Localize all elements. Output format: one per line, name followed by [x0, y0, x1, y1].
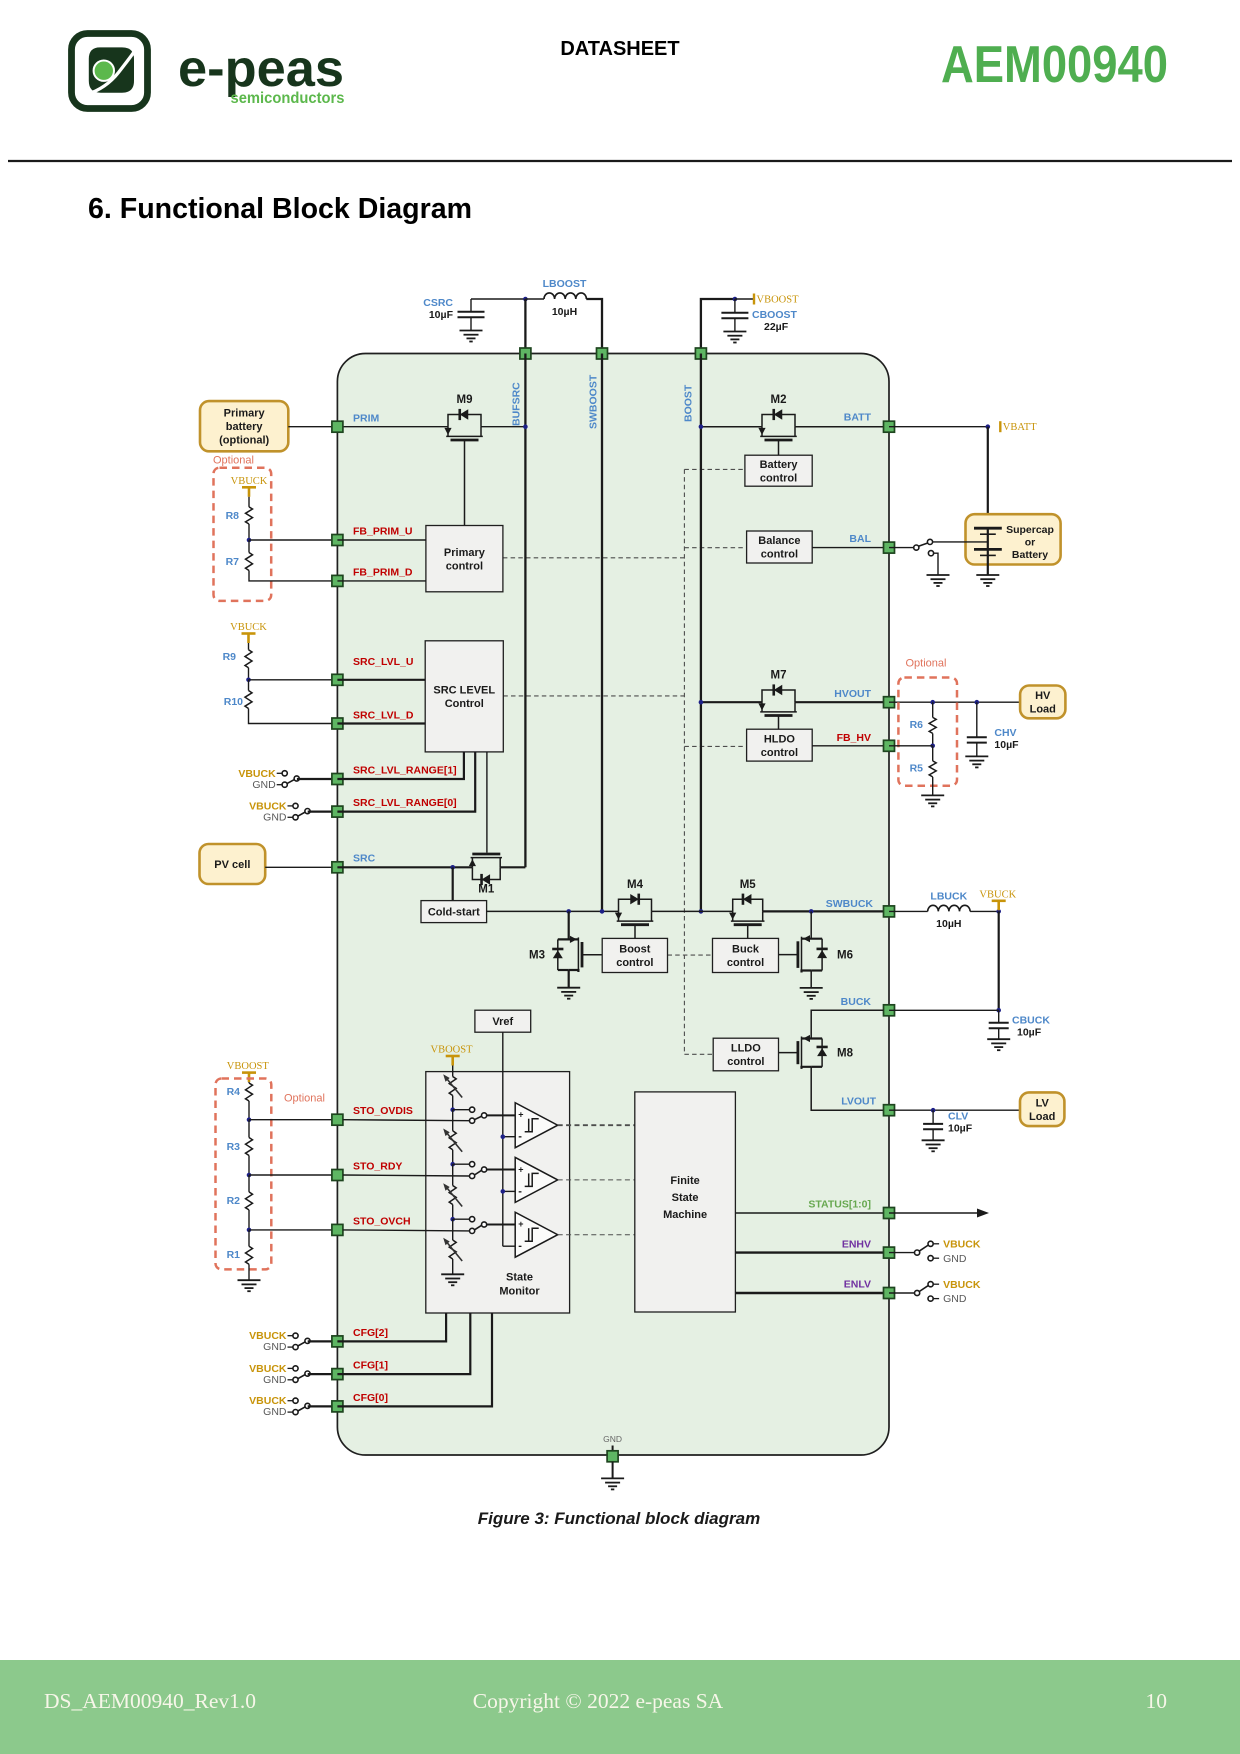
switch STO comparator 3 — [470, 1217, 475, 1222]
resistor R1 — [246, 1246, 253, 1264]
transistor M9 — [448, 415, 481, 427]
svg-text:Primary: Primary — [224, 408, 266, 420]
svg-text:Balance: Balance — [758, 535, 800, 547]
resistor R8 — [246, 507, 253, 524]
comparator 1 — [515, 1103, 558, 1148]
svg-text:Finite: Finite — [670, 1175, 699, 1187]
wire SRC_LVL_RANGE[0] riser — [337, 752, 475, 812]
svg-text:Monitor: Monitor — [499, 1286, 540, 1298]
svg-text:10µF: 10µF — [429, 309, 454, 321]
wire FSM to STATUS pin — [735, 1212, 883, 1214]
svg-text:M9: M9 — [457, 394, 473, 406]
wire HLDO to FB_HV pin — [812, 745, 889, 747]
wire tap3 to contact — [453, 1218, 470, 1220]
wire PV cell to SRC pin — [265, 866, 337, 868]
wire HVOUT to HV Load — [889, 701, 1020, 703]
dashed link Boost-Buck control — [668, 954, 713, 956]
wire switch to SRC_LVL_RANGE[1] pin — [297, 778, 338, 780]
wire node to LBOOST — [525, 298, 544, 300]
svg-text:M2: M2 — [771, 394, 787, 406]
node VBATT — [986, 424, 991, 429]
wire node to STO_RDY pin — [249, 1174, 337, 1176]
svg-text:VBUCK: VBUCK — [979, 889, 1016, 900]
transistor M3 — [558, 938, 579, 940]
svg-text:LBOOST: LBOOST — [543, 278, 587, 290]
ground CLV — [922, 1139, 945, 1141]
wire node to STO_OVCH pin — [249, 1229, 337, 1231]
svg-text:(optional): (optional) — [219, 435, 269, 447]
svg-text:DATASHEET: DATASHEET — [560, 38, 679, 60]
svg-text:GND: GND — [263, 811, 287, 823]
box LLDO control — [713, 1038, 778, 1071]
pin FB_PRIM_D — [332, 575, 343, 586]
transistor M4 — [619, 899, 652, 911]
svg-text:Optional: Optional — [906, 658, 947, 670]
svg-text:Load: Load — [1029, 1111, 1055, 1123]
svg-text:LBUCK: LBUCK — [930, 891, 967, 903]
wire LVOUT to LV Load — [889, 1109, 1020, 1111]
svg-text:State: State — [506, 1272, 533, 1284]
wire node to R5 — [932, 746, 934, 761]
wire node to M3 drain — [568, 911, 570, 939]
box Vref — [475, 1010, 531, 1032]
capacitor CSRC — [470, 299, 472, 312]
box PV cell — [200, 844, 266, 884]
box Battery control — [745, 455, 812, 486]
capacitor CHV plates — [967, 736, 987, 738]
box Finite State Machine — [635, 1092, 736, 1312]
wire BAL switch to ground — [934, 553, 938, 575]
svg-text:CHV: CHV — [994, 727, 1016, 739]
wire CBOOST to ground — [734, 318, 736, 331]
wire node to Cold-start — [452, 867, 454, 900]
wire M8 source to LVOUT pin — [811, 1067, 883, 1110]
svg-text:VBUCK: VBUCK — [231, 476, 268, 487]
pin STO_RDY — [332, 1170, 343, 1181]
wire SRC to M1 — [337, 866, 472, 868]
dashed link SRC LEVEL control — [503, 695, 684, 697]
svg-text:PV cell: PV cell — [214, 859, 250, 871]
wire CBUCK to ground — [998, 1028, 1000, 1039]
svg-text:10µH: 10µH — [552, 306, 577, 318]
svg-text:GND: GND — [252, 779, 276, 791]
wire node to M6 drain — [810, 911, 812, 938]
wire R6 to FB node — [932, 733, 934, 745]
resistor R3 — [246, 1138, 253, 1156]
svg-text:CLV: CLV — [948, 1111, 968, 1123]
svg-text:R6: R6 — [910, 719, 924, 731]
comparator 2 — [515, 1157, 558, 1202]
svg-text:CFG[1]: CFG[1] — [353, 1360, 388, 1372]
svg-text:GND: GND — [603, 1434, 622, 1444]
svg-text:Battery: Battery — [760, 459, 799, 471]
pin BAL — [884, 542, 895, 553]
svg-text:GND: GND — [943, 1253, 967, 1265]
wire tap1 to contact — [453, 1109, 470, 1111]
wire battery internal — [987, 528, 989, 555]
svg-text:VBATT: VBATT — [1003, 422, 1037, 433]
svg-text:R3: R3 — [227, 1141, 241, 1153]
svg-text:SWBUCK: SWBUCK — [826, 898, 874, 910]
supply VBOOST top — [753, 294, 755, 305]
wire STO pin row 3 — [343, 1230, 470, 1231]
node R8 R7 — [247, 538, 252, 543]
svg-text:M5: M5 — [740, 879, 757, 891]
box LV Load — [1020, 1092, 1064, 1126]
footer bar — [0, 1660, 1240, 1754]
resistor R9 — [245, 650, 252, 668]
box Buck control — [713, 938, 779, 972]
wire BAL switch to battery mid — [933, 541, 988, 543]
ground BAL — [927, 574, 950, 576]
wire ENHV to switch — [889, 1252, 915, 1254]
pin SWBUCK — [884, 906, 895, 917]
wire pole to comparator 2 plus — [487, 1169, 516, 1171]
node R6 R5 — [930, 744, 935, 749]
IC block boundary AEM00940 — [337, 354, 889, 1456]
svg-text:SRC: SRC — [353, 853, 376, 865]
svg-text:control: control — [761, 549, 798, 561]
wire VBUCK to R8 — [248, 497, 250, 507]
wire STATUS arrow — [889, 1212, 980, 1214]
box HLDO control — [747, 729, 813, 761]
svg-text:control: control — [760, 472, 797, 484]
pin STO_OVCH — [332, 1224, 343, 1235]
wire FB_HV pin to node — [889, 745, 933, 747]
pin SRC_LVL_RANGE[1] — [332, 774, 343, 785]
ground CHV — [965, 755, 988, 757]
dashed link Battery control — [684, 468, 745, 470]
ground battery — [976, 574, 999, 576]
svg-text:Machine: Machine — [663, 1209, 707, 1221]
node M7 BOOST — [699, 700, 704, 705]
transistor M1 symbol — [472, 867, 500, 879]
svg-text:R2: R2 — [227, 1195, 241, 1207]
svg-text:AEM00940: AEM00940 — [941, 36, 1168, 94]
wire Balance control to BAL pin — [812, 547, 883, 549]
supply VBATT — [999, 421, 1001, 432]
node CHV — [975, 700, 980, 705]
wire tap3 to pot4 — [452, 1219, 454, 1240]
svg-text:R7: R7 — [226, 556, 240, 568]
svg-text:ENLV: ENLV — [844, 1279, 871, 1291]
svg-text:+: + — [518, 1110, 523, 1120]
pin BOOST — [695, 348, 706, 359]
node M3 drain — [566, 909, 571, 914]
svg-text:10µH: 10µH — [936, 918, 961, 930]
wire R3 to node — [248, 1156, 250, 1176]
capacitor CHV — [976, 702, 978, 737]
svg-text:Vref: Vref — [492, 1016, 513, 1028]
pin HVOUT — [884, 697, 895, 708]
pin CFG[0] — [332, 1401, 343, 1412]
svg-text:STO_RDY: STO_RDY — [353, 1161, 402, 1173]
node CLV — [931, 1108, 936, 1113]
wire BATT pin to VBATT — [889, 426, 988, 428]
wire BOOST pin to CBOOST — [701, 299, 735, 354]
box Balance control — [747, 531, 813, 563]
svg-text:ENHV: ENHV — [842, 1238, 871, 1250]
node tap1 — [450, 1107, 455, 1112]
svg-text:STO_OVCH: STO_OVCH — [353, 1215, 411, 1227]
wire Vref to comparator2 minus — [503, 1190, 515, 1192]
pin BUFSRC — [520, 348, 531, 359]
wire BOOST rail to M2 — [701, 426, 762, 428]
svg-text:Primary: Primary — [444, 547, 486, 559]
svg-text:22µF: 22µF — [764, 321, 789, 333]
svg-text:FB_HV: FB_HV — [837, 732, 871, 744]
pin SRC — [332, 862, 343, 873]
svg-text:VBUCK: VBUCK — [943, 1238, 981, 1250]
box Cold-start — [421, 901, 487, 923]
wire R9 to node — [248, 668, 250, 680]
capacitor CBOOST — [734, 299, 736, 313]
svg-text:HLDO: HLDO — [764, 733, 796, 745]
potentiometer STO third — [449, 1186, 456, 1205]
svg-text:-: - — [518, 1240, 522, 1252]
wire STO pin row 1 — [343, 1120, 470, 1121]
wire Primary battery to PRIM pin — [288, 426, 337, 428]
svg-text:M4: M4 — [627, 879, 644, 891]
wire CLV to ground — [932, 1129, 934, 1140]
wire switch to SRC_LVL_RANGE[0] pin — [308, 810, 338, 812]
pin BUCK — [884, 1005, 895, 1016]
wire R5 to ground — [932, 777, 934, 796]
svg-text:M8: M8 — [837, 1048, 854, 1060]
svg-text:M3: M3 — [529, 950, 545, 962]
dashed link Primary control — [503, 557, 685, 559]
wire node to R1 — [248, 1230, 250, 1246]
wire switch to CFG[0] pin — [308, 1405, 338, 1407]
wire BUFSRC rail — [524, 354, 526, 868]
svg-text:Buck: Buck — [732, 944, 760, 956]
node tap2 — [450, 1162, 455, 1167]
wire STO pin row 2 — [343, 1175, 470, 1176]
wire R10 to SRC_LVL_D pin — [249, 709, 338, 724]
svg-text:LVOUT: LVOUT — [841, 1095, 876, 1107]
wire FSM to ENHV pin — [735, 1251, 883, 1253]
ground GND pin — [601, 1477, 624, 1479]
node VBUCK — [996, 909, 1001, 914]
potentiometer STO top — [449, 1077, 456, 1096]
resistor R6 — [929, 717, 936, 733]
ground CBOOST — [723, 331, 746, 333]
node R9 R10 — [246, 678, 251, 683]
resistor R4 — [246, 1083, 253, 1101]
svg-text:or: or — [1025, 537, 1036, 549]
svg-text:battery: battery — [226, 421, 264, 433]
svg-text:semiconductors: semiconductors — [231, 90, 345, 107]
wire node to SRC_LVL_U pin — [249, 679, 338, 681]
wire CFG[2] riser — [337, 1313, 446, 1341]
pin PRIM — [332, 421, 343, 432]
node SWBOOST row — [600, 909, 605, 914]
svg-text:R1: R1 — [227, 1249, 241, 1261]
svg-text:-: - — [518, 1185, 522, 1197]
switch STO comparator 2 — [470, 1162, 475, 1167]
svg-text:BOOST: BOOST — [683, 384, 695, 422]
svg-text:Optional: Optional — [284, 1092, 325, 1104]
wire node to FB_PRIM_U pin — [249, 539, 337, 541]
wire FB_PRIM_U to Primary control — [337, 539, 426, 541]
pin SRC_LVL_RANGE[0] — [332, 806, 343, 817]
wire switch to CFG[2] pin — [308, 1340, 338, 1342]
resistor R7 — [246, 553, 253, 571]
pin STATUS[1:0] — [884, 1208, 895, 1219]
wire tap2 to pot3 — [452, 1164, 454, 1185]
svg-text:Load: Load — [1030, 704, 1056, 716]
wire R7 to FB_PRIM_D pin — [249, 571, 337, 581]
wire Vref to comparator1 minus — [503, 1136, 515, 1138]
box Primary battery (optional) — [200, 401, 288, 451]
node SRC cold-start — [450, 865, 455, 870]
wire SRC LEVEL to M1 gate — [486, 752, 488, 853]
svg-text:HV: HV — [1035, 690, 1051, 702]
wire CSRC to ground — [470, 317, 472, 330]
optional box R1-R4 — [216, 1079, 272, 1270]
pin SRC_LVL_D — [332, 718, 343, 729]
pin BATT — [884, 421, 895, 432]
svg-text:control: control — [727, 1056, 764, 1068]
wire battery to ground — [987, 555, 989, 575]
svg-text:Battery: Battery — [1012, 549, 1048, 561]
header rule — [8, 160, 1232, 162]
svg-text:GND: GND — [263, 1374, 287, 1386]
svg-text:6. Functional Block Diagram: 6. Functional Block Diagram — [88, 193, 472, 225]
svg-text:CFG[0]: CFG[0] — [353, 1392, 388, 1404]
dashed control bus vertical — [683, 469, 685, 1054]
transistor M6 — [802, 938, 823, 940]
svg-text:LLDO: LLDO — [731, 1043, 761, 1055]
node Vref comparator1 — [501, 1134, 506, 1139]
wire node to R6 — [932, 702, 934, 717]
wire CFG[0] riser — [337, 1313, 492, 1406]
svg-text:+: + — [518, 1164, 523, 1174]
box Supercap or Battery — [966, 514, 1061, 564]
ground CSRC — [460, 330, 483, 332]
svg-text:R10: R10 — [224, 696, 243, 708]
svg-text:VBUCK: VBUCK — [230, 622, 267, 633]
wire CSRC to LBOOST node — [471, 298, 525, 300]
wire pot1 to tap1 — [452, 1096, 454, 1110]
svg-text:BUCK: BUCK — [841, 996, 872, 1008]
svg-text:State: State — [672, 1192, 699, 1204]
wire M5 to SWBUCK pin — [763, 910, 889, 912]
svg-text:SRC_LVL_RANGE[1]: SRC_LVL_RANGE[1] — [353, 765, 457, 777]
pin LVOUT — [884, 1105, 895, 1116]
wire SWBUCK pin to LBUCK — [889, 910, 928, 912]
svg-text:FB_PRIM_U: FB_PRIM_U — [353, 526, 413, 538]
switch STO comparator 1 — [470, 1107, 475, 1112]
node BUFSRC top — [523, 297, 528, 302]
node BOOST row — [699, 909, 704, 914]
capacitor CBUCK — [998, 1010, 1000, 1023]
optional box R8 R7 — [214, 468, 272, 601]
svg-text:CSRC: CSRC — [423, 297, 453, 309]
pin GND — [607, 1451, 618, 1462]
box Boost control — [602, 938, 667, 972]
svg-text:control: control — [616, 957, 653, 969]
wire M3 source to ground — [568, 970, 570, 988]
pin CFG[1] — [332, 1369, 343, 1380]
capacitor CLV — [932, 1110, 934, 1124]
dashed link LLDO control — [684, 1053, 713, 1055]
resistor R2 — [246, 1192, 253, 1210]
svg-text:PRIM: PRIM — [353, 413, 380, 425]
battery plates — [974, 527, 1002, 530]
transistor M7 — [762, 690, 795, 702]
svg-text:GND: GND — [263, 1406, 287, 1418]
svg-text:SRC LEVEL: SRC LEVEL — [433, 684, 495, 696]
pin STO_OVDIS — [332, 1114, 343, 1125]
pin ENHV — [884, 1247, 895, 1258]
svg-text:Figure 3: Functional block dia: Figure 3: Functional block diagram — [478, 1509, 760, 1528]
wire BUCK pin to M8 drain — [811, 1010, 883, 1038]
box Primary control — [426, 526, 503, 592]
svg-text:Copyright © 2022 e-peas SA: Copyright © 2022 e-peas SA — [473, 1689, 724, 1713]
comparator 3 — [515, 1212, 558, 1257]
wire M2 to BATT pin — [795, 426, 889, 428]
svg-text:M1: M1 — [478, 883, 495, 895]
wire BOOST rail to M7 — [701, 701, 762, 703]
wire SWBOOST rail — [601, 354, 603, 912]
inductor LBOOST — [544, 293, 586, 299]
node R3 R2 — [247, 1173, 252, 1178]
wire Vref rail — [502, 1032, 504, 1246]
wire VBOOST into monitor — [452, 1066, 454, 1077]
node CBOOST — [733, 297, 738, 302]
svg-text:DS_AEM00940_Rev1.0: DS_AEM00940_Rev1.0 — [44, 1689, 256, 1713]
supply VBUCK (R9) — [242, 632, 256, 635]
resistor R5 — [929, 761, 936, 777]
wire ENLV to switch — [889, 1292, 915, 1294]
svg-text:R4: R4 — [227, 1086, 241, 1098]
wire SRC_LVL_D to box — [337, 722, 425, 724]
svg-text:Boost: Boost — [619, 944, 651, 956]
pin SRC_LVL_U — [332, 674, 343, 685]
capacitor CBOOST plates — [721, 312, 748, 314]
node tap3 — [450, 1217, 455, 1222]
svg-text:GND: GND — [263, 1341, 287, 1353]
dashed link HLDO control — [684, 745, 746, 747]
ground M3 — [557, 987, 580, 989]
wire FSM to ENLV pin — [735, 1292, 883, 1294]
wire GND stub — [612, 1446, 614, 1452]
dashed comparator output 1 — [558, 1124, 635, 1126]
potentiometer STO second — [449, 1131, 456, 1150]
box SRC LEVEL Control — [425, 641, 503, 752]
wire node to R7 — [248, 540, 250, 553]
wire VBUCK node to BUCK row — [998, 911, 1000, 1010]
wire R4 to node — [248, 1101, 250, 1120]
pin ENLV — [884, 1288, 895, 1299]
wire R2 to node — [248, 1210, 250, 1230]
pin FB_PRIM_U — [332, 535, 343, 546]
wire Cold-start to M4 — [487, 910, 618, 912]
ground R5 — [921, 794, 944, 796]
svg-text:STO_OVDIS: STO_OVDIS — [353, 1105, 413, 1117]
wire node to VBOOST tick — [735, 298, 754, 300]
wire switch to CFG[1] pin — [308, 1373, 338, 1375]
svg-text:BATT: BATT — [844, 412, 872, 424]
svg-text:control: control — [727, 957, 764, 969]
svg-text:CBUCK: CBUCK — [1012, 1015, 1050, 1027]
svg-text:CBOOST: CBOOST — [752, 309, 798, 321]
svg-text:R8: R8 — [226, 510, 240, 522]
wire node to R3 — [248, 1120, 250, 1138]
optional box R6 R5 — [898, 678, 957, 786]
svg-text:VBOOST: VBOOST — [430, 1045, 473, 1056]
